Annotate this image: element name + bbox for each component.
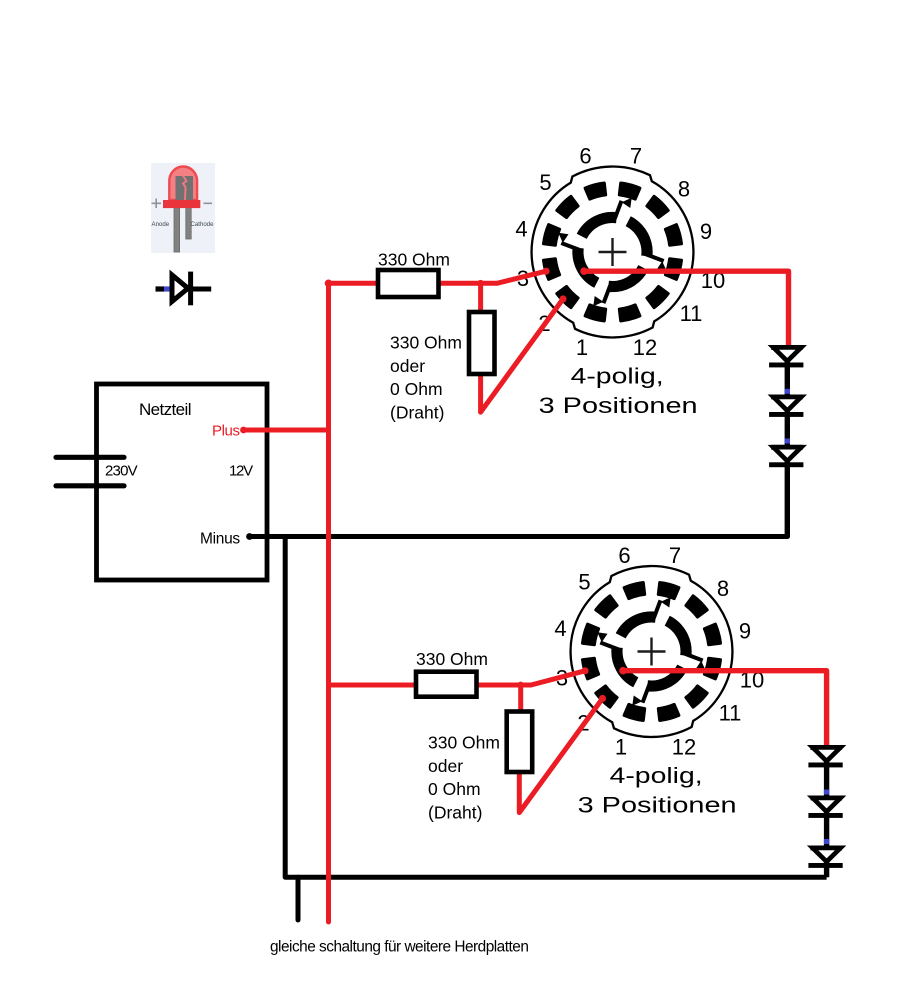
svg-text:oder: oder [428, 756, 463, 776]
4 wiper arms with arrowheads [615, 201, 622, 219]
12 contact pads ring [665, 225, 681, 246]
blue polarity tick chain2 a [824, 790, 829, 795]
black wire: stub for further hotplates [296, 877, 301, 920]
svg-text:4: 4 [554, 616, 566, 641]
svg-text:9: 9 [700, 219, 712, 244]
rotary switch S1 (top), 4-polig 3 Positionen [515, 143, 725, 418]
resistor R2 330 Ohm oder 0 Ohm (vertical) [469, 312, 495, 374]
resistor R1 330 Ohm (horizontal) [378, 270, 439, 297]
svg-text:11: 11 [680, 301, 703, 326]
red wire: R1 to switch pin 3 [438, 271, 546, 283]
diode legend symbol: cathode bar [188, 272, 193, 306]
svg-text:330 Ohm: 330 Ohm [390, 333, 462, 353]
svg-text:330 Ohm: 330 Ohm [416, 649, 488, 669]
blue polarity tick chain1 a [785, 389, 790, 394]
4 wiper arms with arrowheads [654, 600, 661, 618]
svg-text:oder: oder [390, 356, 425, 376]
svg-text:6: 6 [618, 543, 630, 568]
svg-text:0 Ohm: 0 Ohm [428, 779, 481, 799]
svg-text:6: 6 [579, 143, 591, 168]
svg-text:7: 7 [669, 543, 681, 568]
red wire: to resistor R1 [329, 281, 378, 286]
LED D5 (chain 2) [811, 796, 843, 801]
svg-text:1: 1 [576, 335, 588, 360]
LED D1 (chain 1) [771, 345, 803, 350]
LED photo: left leg (anode, long) [174, 206, 180, 252]
black wire: branch down to second circuit [285, 537, 826, 878]
rotary switch S2 (bottom), 4-polig 3 Positionen [554, 543, 764, 818]
svg-text:1: 1 [615, 734, 627, 759]
diode legend symbol: cathode lead [191, 287, 212, 292]
svg-text:7: 7 [630, 143, 642, 168]
svg-text:12V: 12V [229, 463, 253, 480]
red wire: rail to resistor R3 [329, 683, 416, 688]
svg-text:4-polig,: 4-polig, [571, 363, 664, 388]
svg-text:12: 12 [633, 335, 657, 360]
LED photo: internal chip (gray) [176, 176, 194, 200]
center cross [599, 238, 627, 266]
svg-text:3 Positionen: 3 Positionen [539, 393, 698, 418]
LED D3 (chain 1) [771, 445, 803, 450]
svg-text:Anode: Anode [152, 221, 170, 228]
red wire: switch 2 common to LED chain 2 [623, 671, 827, 746]
red wire: R3 to switch 2 pin 3 [477, 671, 585, 685]
junction dot at Minus terminal [246, 533, 253, 540]
svg-text:330 Ohm: 330 Ohm [428, 733, 500, 753]
svg-text:230V: 230V [105, 463, 138, 480]
svg-text:5: 5 [539, 170, 551, 195]
svg-text:gleiche schaltung für weitere: gleiche schaltung für weitere Herdplatte… [270, 939, 528, 956]
LED photo: red dome body [169, 167, 197, 201]
LED D4 (chain 2) [811, 745, 843, 750]
diode legend symbol: triangle [172, 275, 188, 302]
rotary switch body outline [532, 167, 694, 338]
svg-text:11: 11 [719, 700, 742, 725]
LED photo: flange [163, 200, 200, 208]
LED D6 (chain 2) [811, 846, 843, 851]
svg-text:Minus: Minus [200, 530, 240, 547]
black wire: Minus bus from Netzteil to first LED chain [250, 534, 788, 539]
12 contact pads ring [704, 624, 720, 645]
diode legend symbol: anode lead (black + blue tip) [156, 286, 165, 291]
svg-text:(Draht): (Draht) [428, 802, 482, 822]
svg-text:Plus: Plus [212, 423, 240, 440]
svg-text:3 Positionen: 3 Positionen [578, 793, 737, 818]
black wire: LED chain 2 vertical [824, 746, 829, 877]
red wire: junction down to R4 [518, 685, 523, 712]
LED D2 (chain 1) [771, 395, 803, 400]
red wire: switch common to LED chain 1 [584, 271, 789, 346]
svg-text:8: 8 [717, 576, 729, 601]
red wire: junction down to R2 [478, 283, 483, 313]
svg-text:330 Ohm: 330 Ohm [378, 249, 450, 269]
svg-text:5: 5 [578, 569, 590, 594]
red wire: main plus rail vertical [326, 283, 331, 922]
230V terminal lower [56, 483, 124, 488]
Netzteil box [97, 384, 268, 580]
black wire: LED chain 1 vertical [785, 346, 790, 537]
svg-text:9: 9 [739, 618, 751, 643]
LED photo: right leg (cathode, short) [186, 206, 191, 239]
LED photo: minus sign [204, 202, 213, 204]
red wire: R4 bottom to switch 2 pin 2 [519, 699, 602, 813]
LED photo: background tile [151, 163, 215, 253]
svg-text:Cathode: Cathode [191, 221, 215, 228]
center cross [638, 638, 666, 666]
blue polarity tick chain2 b [824, 839, 829, 844]
svg-text:0 Ohm: 0 Ohm [390, 379, 443, 399]
red wire: Plus output from Netzteil [244, 428, 329, 433]
svg-text:8: 8 [678, 176, 690, 201]
resistor R4 330 Ohm oder 0 Ohm (vertical) [507, 712, 533, 773]
svg-text:12: 12 [672, 734, 696, 759]
rotary switch body outline [571, 566, 733, 737]
svg-text:4-polig,: 4-polig, [610, 763, 703, 788]
LED photo: plus sign [152, 199, 162, 209]
230V terminal upper [56, 455, 124, 460]
rotor common ring arcs [582, 217, 617, 236]
resistor R3 330 Ohm (horizontal) [416, 672, 477, 697]
blue polarity tick chain1 b [785, 439, 790, 444]
svg-text:(Draht): (Draht) [390, 402, 444, 422]
svg-text:Netzteil: Netzteil [139, 400, 191, 419]
red wire: R2 bottom to switch pin 2 [481, 299, 563, 412]
rotor common ring arcs [621, 617, 656, 636]
svg-text:4: 4 [515, 216, 527, 241]
